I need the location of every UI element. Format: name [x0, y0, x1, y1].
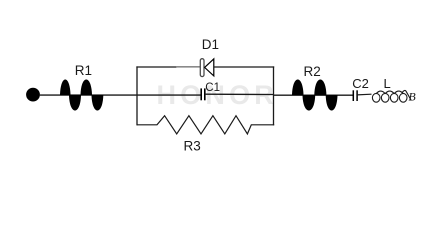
label C1 — [205, 82, 220, 94]
svg-text:C2: C2 — [352, 76, 369, 91]
node B label — [408, 89, 416, 103]
label D1 — [202, 37, 219, 52]
resistor R1 — [60, 79, 103, 110]
label L — [384, 76, 391, 91]
wire main line left: dot to C1 left plate — [39, 94, 201, 96]
wire right vertical of parallel network — [273, 66, 275, 125]
label C2 — [352, 76, 369, 91]
wire top branch right: D1 to right vertical — [214, 66, 274, 68]
diode D1 triangle — [205, 59, 214, 76]
capacitor C1 plates — [201, 88, 205, 100]
label R3 — [184, 139, 201, 154]
wire top branch black segment — [136, 66, 177, 68]
wire C2 to inductor L — [357, 93, 371, 96]
svg-text:R1: R1 — [75, 63, 92, 78]
svg-text:B: B — [408, 89, 416, 103]
watermark HONOR — [157, 80, 279, 110]
node A terminal dot — [26, 88, 40, 102]
capacitor C2 plates — [353, 90, 357, 101]
wire main line middle: C1 right plate to right vertical — [205, 93, 274, 95]
wire bottom branch + resistor R3 zigzag — [137, 116, 274, 134]
resistor R2 — [292, 79, 338, 110]
inductor L coil — [372, 90, 411, 102]
svg-text:R2: R2 — [304, 64, 321, 79]
label R2 — [304, 64, 321, 79]
svg-text:L: L — [384, 76, 391, 91]
svg-text:C1: C1 — [205, 82, 220, 94]
label R1 — [75, 63, 92, 78]
svg-text:R3: R3 — [184, 139, 201, 154]
wire left vertical of parallel network — [136, 66, 138, 125]
wire top branch gray segment to D1 — [176, 66, 201, 68]
wire main line right: right vertical to C2 — [274, 94, 354, 96]
svg-text:D1: D1 — [202, 37, 219, 52]
diode D1 cathode bar — [200, 59, 204, 77]
